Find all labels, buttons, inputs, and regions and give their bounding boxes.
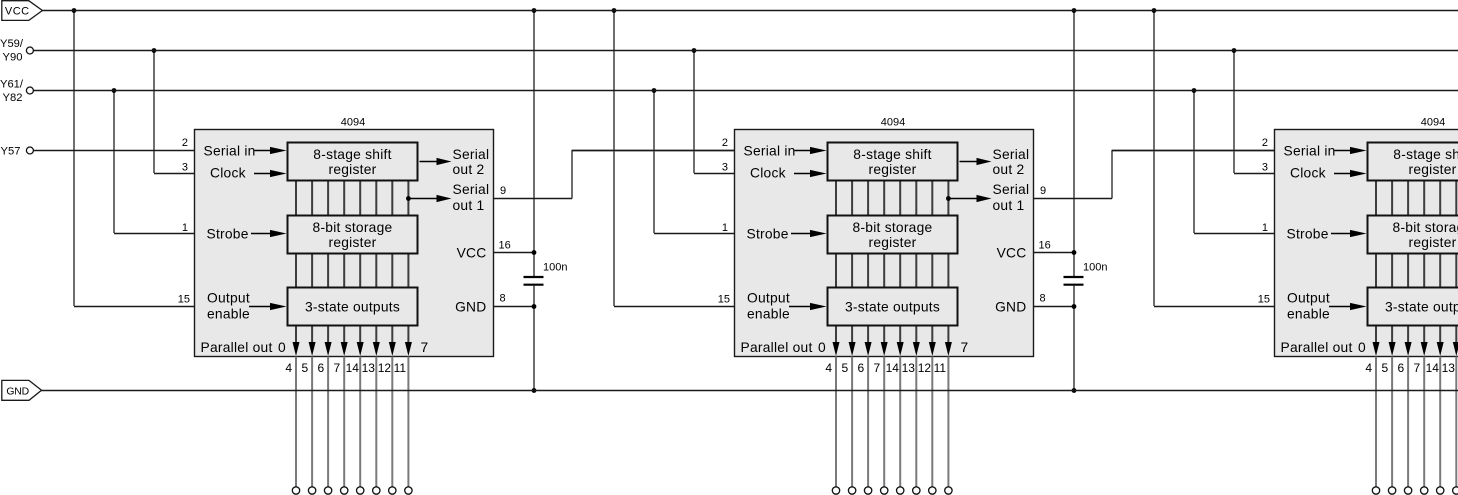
svg-text:VCC: VCC [5,6,30,18]
svg-text:Y61/: Y61/ [0,79,24,91]
svg-text:GND: GND [6,387,29,398]
svg-text:Y59/: Y59/ [0,38,24,50]
svg-text:Y90: Y90 [3,52,23,64]
svg-text:Y57: Y57 [1,146,21,158]
svg-text:Y82: Y82 [3,92,23,104]
